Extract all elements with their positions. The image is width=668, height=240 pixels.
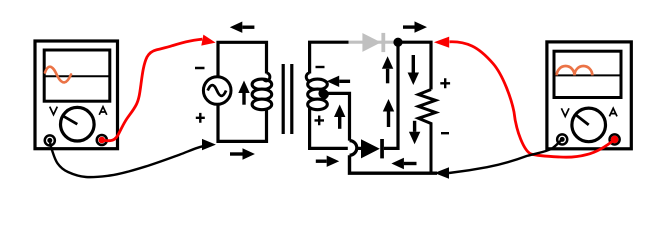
wire: junction down to diode D2 cathode bbox=[384, 42, 398, 148]
arrow: current right above junction bbox=[403, 21, 427, 32]
node junction dot at top bbox=[393, 38, 402, 47]
arrow: current up left of junction wire (upper) bbox=[382, 56, 393, 83]
AC source V1 bbox=[203, 77, 231, 105]
arrow: current up below center tap bbox=[334, 105, 345, 129]
transformer T1 primary winding bbox=[252, 79, 272, 110]
wire: center tap to hop bbox=[323, 93, 350, 140]
wire hop over bottom wire bbox=[350, 141, 357, 156]
label minus at resistor bbox=[441, 132, 449, 134]
transformer T1 core bbox=[283, 64, 292, 134]
multimeter M2 red terminal bbox=[610, 134, 620, 144]
multimeter M2 knob pointer bbox=[575, 114, 589, 125]
diode D2 (conducting) bbox=[361, 139, 380, 158]
arrow: current left above primary bbox=[230, 22, 255, 33]
wire: hop down to bottom rail bbox=[350, 155, 438, 173]
arrowhead of M2 red lead bbox=[434, 37, 449, 48]
arrowhead of M2 black lead bbox=[434, 167, 449, 178]
arrow: current up left of junction wire (lower) bbox=[383, 99, 394, 127]
diode D1 (not conducting, gray) bbox=[362, 33, 381, 52]
multimeter M1 display bbox=[44, 50, 110, 101]
AC source sine symbol bbox=[208, 85, 226, 96]
resistor R1 zigzag bbox=[418, 90, 435, 174]
arrow: current right below secondary bottom wire bbox=[316, 156, 339, 167]
multimeter M1 display baseline bbox=[44, 75, 110, 77]
wire: junction to load top corner bbox=[398, 42, 431, 89]
multimeter M1 label V bbox=[50, 107, 58, 115]
multimeter M2 body bbox=[547, 42, 631, 149]
primary loop wire: bottom bbox=[218, 104, 267, 141]
multimeter M2 rectified trace bbox=[557, 66, 593, 75]
wire: secondary bottom to diode D2 bbox=[310, 108, 362, 148]
arrow: current left toward coil above center tap bbox=[327, 76, 350, 87]
transformer T1 secondary winding bbox=[308, 79, 328, 110]
center tap node dot bbox=[318, 89, 327, 98]
multimeter M2 display baseline bbox=[554, 74, 621, 76]
label plus at secondary bottom bbox=[315, 116, 325, 126]
multimeter M1 body bbox=[35, 41, 118, 149]
label plus at AC source bbox=[196, 113, 205, 123]
label plus at resistor bbox=[440, 78, 450, 88]
arrow: current right below primary bbox=[230, 148, 255, 159]
multimeter M2 label V bbox=[561, 108, 569, 116]
multimeter M2 knob bbox=[572, 108, 606, 142]
multimeter M1 sine trace bbox=[45, 67, 71, 83]
primary loop wire: top and left bbox=[218, 42, 267, 76]
arrow: current down right of junction wire (lower) bbox=[409, 121, 420, 145]
multimeter M1 knob bbox=[61, 107, 95, 141]
wire: M1 black test lead bbox=[50, 141, 204, 177]
multimeter M2 display bbox=[554, 51, 621, 97]
multimeter M1 knob pointer bbox=[62, 115, 78, 124]
wire: M2 red test lead bbox=[450, 42, 615, 157]
wire: M2 black test lead bbox=[449, 139, 562, 173]
multimeter M1 red terminal bbox=[97, 135, 107, 145]
wire: M1 red test lead bbox=[102, 39, 202, 140]
multimeter M2 black terminal bbox=[557, 134, 567, 144]
label minus at AC source bbox=[195, 67, 205, 70]
multimeter M1 black terminal bbox=[45, 135, 55, 145]
multimeter M1 label A bbox=[99, 107, 107, 115]
arrow: current up inside primary bbox=[238, 81, 249, 105]
wire: secondary top to diode (black part) bbox=[310, 42, 349, 73]
arrow: current left above bottom rail bbox=[391, 158, 416, 169]
arrowhead of M1 black lead bbox=[202, 139, 216, 150]
arrow: current down right of junction wire (upper) bbox=[408, 55, 419, 85]
label minus at secondary top bbox=[316, 66, 325, 68]
arrowhead of M1 red lead bbox=[201, 35, 215, 46]
multimeter M2 label A bbox=[609, 108, 617, 116]
wire: grayed segment into diode D1 bbox=[349, 41, 395, 44]
